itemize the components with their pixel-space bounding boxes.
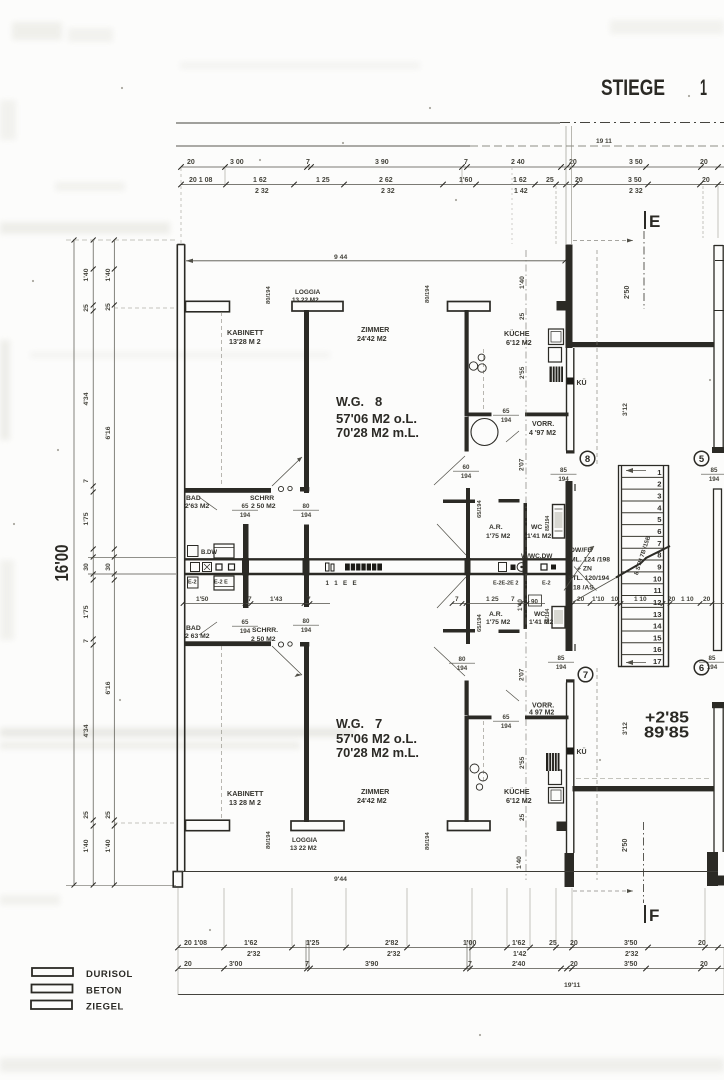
svg-text:1 62: 1 62: [513, 177, 527, 184]
loggia parapet upper: [292, 302, 343, 312]
svg-text:85/194: 85/194: [545, 608, 551, 624]
svg-text:7: 7: [83, 479, 90, 483]
svg-text:1'41 M2: 1'41 M2: [527, 533, 552, 540]
svg-text:A.R.: A.R.: [489, 524, 503, 531]
wall bad right upper: [243, 524, 249, 560]
dashed stair approach lower: [596, 668, 598, 880]
position circle 8: [580, 451, 595, 466]
opening 80/194 schrank-right lower: [293, 618, 319, 634]
svg-text:194: 194: [457, 665, 468, 672]
wall loggia-kabinett upper: [304, 310, 309, 560]
svg-text:20: 20: [698, 940, 706, 947]
label VORR upper: [529, 421, 556, 437]
svg-text:2'50: 2'50: [622, 839, 629, 852]
opening 80/194 zimmer door lower: [449, 656, 475, 672]
svg-text:SCHRR: SCHRR: [250, 495, 274, 502]
wall centre middle segment: [566, 481, 573, 651]
svg-text:2 62: 2 62: [379, 177, 393, 184]
svg-text:80/194: 80/194: [266, 285, 272, 304]
wall stairwell bottom: [573, 786, 715, 791]
svg-text:E-2: E-2: [188, 580, 197, 586]
svg-text:6'16: 6'16: [105, 426, 112, 439]
dashed line loggia upper: [221, 312, 223, 486]
svg-text:194: 194: [501, 417, 512, 424]
svg-text:3'50: 3'50: [624, 940, 637, 947]
appliance hatched upper: [550, 367, 564, 383]
washbasin lower bad: [188, 577, 199, 588]
svg-text:BETON: BETON: [86, 986, 122, 997]
svg-text:4'34: 4'34: [83, 724, 90, 737]
svg-text:KÜCHE: KÜCHE: [504, 329, 530, 338]
svg-text:2 63 M2: 2 63 M2: [185, 633, 210, 640]
svg-text:80/194: 80/194: [425, 831, 431, 850]
svg-text:7: 7: [455, 596, 459, 603]
axis E dash-dot line: [643, 231, 645, 309]
svg-text:14: 14: [653, 622, 662, 631]
label VORR lower: [529, 703, 554, 717]
label SCHRR lower: [251, 627, 278, 643]
opening 85/194 right lower: [699, 655, 724, 671]
label AR lower: [486, 611, 511, 626]
label KUECHE lower: [504, 787, 532, 805]
axis F dash-dot line: [643, 822, 645, 903]
wall kueche vertical upper lower-part: [465, 417, 469, 452]
svg-text:80: 80: [459, 656, 466, 663]
kue square lower: [567, 748, 574, 755]
wall right stub lower: [712, 702, 724, 708]
bottom dimension row 1 labels: [184, 940, 706, 958]
svg-text:1'40: 1'40: [516, 856, 523, 869]
svg-text:F: F: [649, 906, 659, 925]
svg-text:E: E: [649, 212, 660, 231]
svg-text:194: 194: [556, 664, 567, 671]
svg-text:1'40: 1'40: [83, 839, 90, 852]
fixtures right corridor: [499, 563, 557, 572]
svg-text:1 10: 1 10: [634, 596, 647, 603]
position circle 6: [694, 660, 709, 675]
opening 85/194 centre lower: [548, 655, 574, 671]
svg-text:6'16: 6'16: [105, 681, 112, 694]
wall centre foot: [565, 853, 575, 887]
door swing zimmer upper a: [434, 456, 465, 485]
axis E label: [645, 211, 660, 231]
svg-text:6: 6: [699, 663, 704, 674]
svg-text:20: 20: [569, 159, 577, 166]
svg-text:4 '97 M2: 4 '97 M2: [529, 430, 556, 437]
door swing zimmer lower b: [437, 577, 466, 608]
svg-text:3 50: 3 50: [628, 177, 642, 184]
svg-text:65: 65: [242, 619, 249, 626]
svg-text:2'07: 2'07: [519, 668, 526, 681]
legend ZIEGEL: [31, 1001, 124, 1013]
svg-text:1 62: 1 62: [253, 177, 267, 184]
left chain labels column A: [83, 268, 90, 852]
svg-text:20: 20: [703, 596, 711, 603]
stair arrow bottom: [626, 660, 646, 665]
door swing schrank upper: [272, 457, 302, 486]
projection lines from top dimensions: [181, 126, 718, 246]
dashed line loggia lower: [221, 646, 223, 820]
svg-text:13 22 M2: 13 22 M2: [290, 845, 317, 852]
svg-text:6: 6: [657, 527, 661, 536]
svg-text:65/194: 65/194: [477, 499, 483, 518]
svg-text:85: 85: [711, 467, 718, 474]
door swing vorraum upper: [506, 431, 519, 442]
top dimension row 1 line: [178, 164, 724, 170]
svg-text:25: 25: [105, 303, 112, 311]
axis F label: [645, 905, 659, 925]
bottom edge line: [176, 871, 718, 873]
svg-text:25: 25: [83, 811, 90, 819]
wall centre notch kueche upper: [557, 301, 567, 311]
svg-text:17: 17: [653, 657, 661, 666]
svg-text:W/WC.DW: W/WC.DW: [521, 553, 553, 560]
svg-text:7: 7: [511, 596, 515, 603]
door width 90 box: [529, 595, 542, 606]
svg-text:1'42: 1'42: [513, 951, 526, 958]
svg-text:1'40: 1'40: [519, 276, 526, 289]
svg-text:2 32: 2 32: [255, 188, 269, 195]
wall stairwell top: [573, 342, 715, 347]
svg-text:+ ZN: + ZN: [577, 566, 592, 573]
svg-text:W.G.: W.G.: [336, 394, 364, 409]
svg-text:1'75 M2: 1'75 M2: [486, 533, 511, 540]
svg-text:194: 194: [301, 627, 312, 634]
top dimension row 2 labels: [189, 177, 710, 195]
wall kueche tee bar upper: [448, 302, 491, 312]
position circle 7: [578, 667, 593, 682]
svg-text:8: 8: [585, 454, 590, 465]
svg-text:7: 7: [375, 716, 382, 731]
svg-text:1'62: 1'62: [244, 940, 257, 947]
svg-text:18 /AS: 18 /AS: [573, 585, 594, 592]
bottom dimension row 2 line: [175, 966, 724, 972]
wall ar-wc upper: [524, 503, 528, 560]
svg-text:25: 25: [549, 940, 557, 947]
svg-text:1'75 M2: 1'75 M2: [486, 619, 511, 626]
wall vorraum horizontal lower short: [468, 716, 492, 720]
label KABINETT upper: [227, 328, 264, 346]
corridor dim line left: [181, 601, 330, 606]
dimension 2'50 axis F: [573, 839, 633, 893]
svg-text:194: 194: [240, 628, 251, 635]
svg-text:13 28 M 2: 13 28 M 2: [229, 798, 261, 807]
svg-text:2'82: 2'82: [385, 940, 398, 947]
svg-text:KÜ: KÜ: [577, 747, 587, 756]
wall right bottom piece: [707, 852, 724, 886]
door swing vorraum lower: [506, 690, 519, 701]
svg-text:30: 30: [83, 563, 90, 571]
corridor wall junction marks: [242, 558, 528, 575]
boiler circle upper: [471, 419, 498, 446]
label SCHRR upper: [250, 495, 276, 510]
svg-text:7: 7: [83, 639, 90, 643]
svg-text:2'32: 2'32: [625, 951, 638, 958]
label ZIMMER lower: [357, 787, 390, 805]
label BAD lower: [185, 625, 210, 640]
svg-text:20: 20: [187, 159, 195, 166]
svg-text:ZIMMER: ZIMMER: [361, 787, 390, 796]
svg-text:85: 85: [709, 655, 716, 662]
label WG 8 block: [336, 394, 419, 440]
wall piece schrank upper: [300, 487, 309, 492]
svg-text:2'32: 2'32: [247, 951, 260, 958]
left chain labels column B: [105, 268, 112, 852]
wall right upper hollow: [714, 245, 724, 448]
svg-text:25: 25: [83, 304, 90, 312]
label LOGGIA upper: [292, 289, 321, 304]
svg-text:13 22 M2: 13 22 M2: [292, 297, 319, 304]
svg-text:BAD: BAD: [186, 625, 201, 632]
svg-text:BAD: BAD: [186, 495, 201, 502]
svg-text:194: 194: [240, 512, 251, 519]
svg-text:STIEGE: STIEGE: [601, 75, 665, 100]
axis dashed centre vertical lower: [525, 574, 527, 880]
svg-text:2 50 M2: 2 50 M2: [251, 636, 276, 643]
svg-text:1 42: 1 42: [514, 188, 528, 195]
wall stub left lower: [186, 820, 230, 831]
svg-text:7: 7: [583, 670, 588, 681]
opening 85/194 centre upper: [551, 467, 577, 483]
sink unit lower 1: [549, 788, 564, 804]
top dimension row 1 labels: [187, 159, 708, 166]
svg-text:15: 15: [653, 633, 662, 642]
wall bad bottom lower: [186, 641, 272, 646]
svg-text:19 11: 19 11: [596, 138, 612, 145]
bdw box upper: [214, 544, 234, 558]
svg-text:57'06 M2 o.L.: 57'06 M2 o.L.: [336, 411, 417, 426]
svg-text:20: 20: [575, 177, 583, 184]
corridor dim labels right: [455, 596, 515, 603]
wall centre notch kueche lower: [557, 822, 567, 832]
svg-text:3'00: 3'00: [229, 961, 242, 968]
svg-text:2 40: 2 40: [511, 159, 525, 166]
wall ar top upper: [443, 499, 520, 503]
stair left rail: [619, 465, 622, 667]
wall bad right lower: [243, 572, 249, 608]
top boundary line: [176, 122, 724, 125]
svg-text:194: 194: [301, 512, 312, 519]
svg-text:24'42 M2: 24'42 M2: [357, 796, 387, 805]
wall kueche vertical upper: [465, 310, 469, 416]
legend BETON: [32, 985, 123, 997]
axis dashed centre vertical upper: [525, 250, 527, 558]
svg-text:7: 7: [307, 596, 311, 603]
svg-text:ZIMMER: ZIMMER: [361, 325, 390, 334]
wall stub left upper: [186, 301, 230, 312]
svg-text:19'11: 19'11: [564, 982, 581, 989]
svg-text:STL. 120/194: STL. 120/194: [568, 575, 609, 582]
svg-text:1'50: 1'50: [196, 596, 209, 603]
door swing bad lower: [199, 622, 217, 635]
stair dim line: [571, 601, 724, 606]
balcony edge line 9'44 upper: [186, 258, 568, 263]
loggia parapet lower: [291, 821, 344, 831]
svg-text:A.R.: A.R.: [489, 611, 503, 618]
svg-text:1 10: 1 10: [681, 596, 694, 603]
dashed stair approach upper: [596, 250, 598, 464]
kue square upper: [567, 378, 574, 385]
label BAD upper: [185, 495, 210, 510]
svg-text:13'28 M 2: 13'28 M 2: [229, 337, 261, 346]
svg-text:6'12 M2: 6'12 M2: [506, 796, 532, 805]
wall kueche tee bar lower: [448, 821, 491, 831]
wall left exterior: [173, 244, 185, 887]
wall piece schrank lower: [300, 642, 309, 647]
svg-text:1'40: 1'40: [517, 599, 524, 611]
wall centre upper hollow: [566, 348, 575, 454]
wall zimmer-ar lower: [466, 572, 470, 644]
wall ar-wc lower: [524, 572, 528, 629]
svg-text:1: 1: [700, 75, 707, 100]
svg-text:30: 30: [105, 563, 112, 571]
svg-text:DURISOL: DURISOL: [86, 969, 133, 980]
stair right rail: [664, 465, 669, 667]
svg-text:2'50: 2'50: [624, 286, 631, 299]
svg-text:2 32: 2 32: [381, 188, 395, 195]
stair arrow top: [626, 468, 646, 473]
door symbol circles schrank lower: [278, 642, 292, 647]
svg-text:20 1'08: 20 1'08: [184, 940, 207, 947]
svg-text:3 90: 3 90: [375, 159, 389, 166]
fixture symbols left of block: [326, 563, 335, 571]
svg-text:1 25: 1 25: [316, 177, 330, 184]
svg-text:10: 10: [611, 596, 619, 603]
label KABINETT lower: [227, 789, 264, 807]
label WG 7 block: [336, 716, 419, 760]
opening 65/194 schrank upper: [232, 503, 258, 519]
svg-text:VORR.: VORR.: [532, 421, 554, 428]
wall vorraum horizontal upper: [525, 413, 569, 417]
svg-text:E-2E-2E 2: E-2E-2E 2: [493, 581, 518, 587]
sink unit upper 2: [549, 348, 562, 363]
svg-text:85: 85: [560, 467, 567, 474]
wall ar bottom lower: [443, 629, 520, 633]
wall right stub upper: [712, 447, 724, 453]
svg-text:1'40: 1'40: [83, 268, 90, 281]
svg-text:60: 60: [463, 464, 470, 471]
opening 65/194 vorraum upper: [493, 408, 519, 424]
svg-text:WC: WC: [531, 524, 542, 531]
svg-text:9: 9: [657, 562, 661, 571]
svg-text:9'44: 9'44: [334, 876, 347, 883]
bottom dimension row 1 line: [175, 945, 724, 951]
label KUECHE upper: [504, 329, 532, 347]
svg-text:8: 8: [375, 394, 382, 409]
svg-text:7: 7: [657, 539, 661, 548]
svg-text:3'90: 3'90: [365, 961, 378, 968]
landing door lines: [574, 484, 576, 651]
door swing bad upper: [199, 497, 217, 510]
svg-text:65: 65: [242, 503, 249, 510]
bottom boundary line: [178, 994, 724, 996]
svg-text:2'07: 2'07: [519, 458, 526, 471]
svg-text:ML. 124 /198: ML. 124 /198: [570, 557, 610, 564]
svg-text:VORR.: VORR.: [532, 703, 554, 710]
label ZIMMER upper: [357, 325, 390, 343]
opening 60/194 zimmer door upper: [453, 464, 479, 480]
svg-text:3'50: 3'50: [624, 961, 637, 968]
dashed counter kueche upper: [483, 349, 485, 411]
svg-text:E-2 E: E-2 E: [214, 580, 228, 586]
wall vorraum horizontal upper short: [468, 413, 492, 417]
svg-text:LOGGIA: LOGGIA: [295, 289, 321, 296]
appliance hatched lower: [546, 753, 560, 771]
dashed counter kueche lower: [483, 721, 485, 783]
projection lines to bottom dimensions: [178, 888, 705, 946]
svg-text:1 25: 1 25: [486, 596, 499, 603]
top second line: [176, 145, 724, 147]
electrical block hatched: [345, 564, 382, 571]
svg-text:194: 194: [501, 723, 512, 730]
svg-text:ZIEGEL: ZIEGEL: [86, 1002, 124, 1013]
svg-text:70'28 M2 m.L.: 70'28 M2 m.L.: [336, 745, 419, 760]
wall right lower hollow: [714, 708, 723, 852]
svg-text:16'00: 16'00: [52, 545, 72, 582]
svg-text:2'63 M2: 2'63 M2: [185, 503, 210, 510]
svg-text:SCHRR.: SCHRR.: [252, 627, 278, 634]
legend DURISOL: [32, 968, 133, 980]
svg-text:1'25: 1'25: [306, 940, 319, 947]
svg-text:65: 65: [503, 408, 510, 415]
svg-text:4'34: 4'34: [83, 392, 90, 405]
top dimension row 2 line: [178, 182, 724, 188]
bdw box lower: [214, 576, 234, 590]
svg-text:E-2: E-2: [542, 581, 551, 587]
svg-text:1'75: 1'75: [83, 605, 90, 618]
svg-text:57'06 M2 o.L.: 57'06 M2 o.L.: [336, 731, 417, 746]
corridor dim line right: [450, 601, 545, 606]
svg-text:3'12: 3'12: [622, 403, 629, 416]
svg-text:24'42 M2: 24'42 M2: [357, 334, 387, 343]
stair treads: [622, 477, 664, 654]
svg-text:6'12 M2: 6'12 M2: [506, 338, 532, 347]
stair top and bottom rails: [618, 466, 669, 667]
svg-text:65/194: 65/194: [477, 613, 483, 632]
double tick small walls bottom: [306, 940, 470, 970]
svg-text:10: 10: [653, 574, 661, 583]
corridor wall upper line: [185, 558, 566, 560]
svg-text:KABINETT: KABINETT: [227, 789, 264, 798]
svg-text:B.DW: B.DW: [201, 550, 217, 556]
opening 65/194 schrank lower: [232, 619, 258, 635]
svg-text:70'28 M2 m.L.: 70'28 M2 m.L.: [336, 425, 419, 440]
wall centre lower hollow: [566, 679, 575, 853]
svg-text:WC: WC: [534, 611, 545, 618]
svg-text:1 1 E E: 1 1 E E: [326, 580, 359, 587]
left chain connector lines: [66, 240, 176, 886]
washbasin upper bad: [188, 546, 199, 557]
svg-text:KÜCHE: KÜCHE: [504, 787, 530, 796]
opening 80/194 schrank-right upper: [293, 503, 319, 519]
svg-text:KÜ: KÜ: [577, 378, 587, 387]
svg-text:3: 3: [657, 492, 661, 501]
left dimension chain lines: [74, 239, 114, 886]
corridor wall lower line: [185, 573, 566, 575]
svg-text:16: 16: [653, 645, 661, 654]
wall vorraum horizontal lower: [525, 716, 569, 720]
svg-text:80/194: 80/194: [425, 284, 431, 303]
svg-text:1'60: 1'60: [459, 177, 472, 184]
stair section cut line: [573, 546, 670, 602]
label LOGGIA lower: [290, 837, 318, 852]
svg-text:2 32: 2 32: [629, 188, 643, 195]
title STIEGE 1: [601, 75, 707, 100]
dimension 2'50 axis E: [573, 239, 633, 300]
stove circles lower: [470, 764, 488, 790]
svg-text:89'85: 89'85: [644, 725, 689, 742]
label WC upper: [527, 524, 552, 540]
